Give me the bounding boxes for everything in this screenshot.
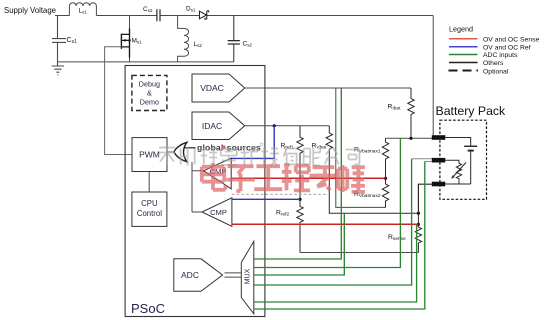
node batmax mid (384, 177, 387, 180)
resistor Ribat (408, 88, 414, 138)
wire cmp outputs to or-gate (192, 162, 204, 212)
svg-text:Optional: Optional (483, 68, 509, 75)
resistor Rref2 (297, 199, 303, 252)
legend blue (449, 46, 478, 48)
battery cell (445, 138, 477, 185)
node IDAC line (273, 124, 276, 127)
legend red (449, 38, 478, 40)
wire green adc 6 (254, 162, 425, 310)
legend black (449, 62, 478, 64)
block IDAC (192, 112, 245, 140)
node Ribat bottom (409, 137, 412, 140)
svg-text:Battery Pack: Battery Pack (436, 104, 507, 118)
resistor Rvbatmax2 (382, 178, 388, 207)
transistor Ms1 (121, 16, 129, 62)
wire green adc 5 (254, 225, 417, 302)
svg-text:ADC inputs: ADC inputs (483, 52, 518, 59)
wire blue ref to CMP1 (231, 126, 274, 159)
ground (52, 62, 64, 75)
block CPU Control (132, 192, 167, 226)
inductor Ls2 (178, 16, 189, 62)
battery pack box (440, 120, 487, 199)
wire battery mid line B (425, 161, 433, 163)
wire ground sense bottom (300, 252, 419, 254)
svg-text:Cs2: Cs2 (243, 41, 253, 48)
svg-text:PSoC: PSoC (131, 301, 165, 316)
wire VDAC output line (245, 87, 411, 89)
svg-text:Ms1: Ms1 (132, 38, 143, 45)
wire PWM to CPU (148, 172, 150, 193)
svg-text:Debug: Debug (139, 80, 160, 89)
inductor Ls1 (69, 3, 96, 16)
svg-text:Cs1: Cs1 (67, 37, 78, 45)
svg-text:Control: Control (137, 209, 162, 218)
wire ADC bus (225, 273, 242, 277)
wire green adc 3 (254, 213, 344, 275)
wire green adc 1 (254, 88, 341, 259)
svg-text:ADC: ADC (181, 270, 199, 280)
wire optional dashed (232, 193, 329, 195)
wire pwm to or-gate (167, 151, 174, 153)
svg-text:Ls2: Ls2 (194, 41, 203, 48)
resistor Rref1 (297, 126, 303, 200)
svg-text:PWM: PWM (139, 150, 160, 160)
wire right drop to battery (432, 16, 434, 136)
svg-text:Legend: Legend (449, 25, 473, 34)
svg-text:Demo: Demo (140, 98, 159, 107)
watermark gray hanzi row (159, 147, 359, 166)
svg-text:Cs2: Cs2 (143, 6, 153, 13)
node Rsense top (417, 212, 420, 215)
wire battery plus line (386, 137, 433, 139)
debug demo box (132, 75, 167, 110)
svg-text:VDAC: VDAC (200, 83, 224, 93)
block VDAC (192, 74, 245, 102)
svg-text:global: global (197, 142, 224, 152)
watermark red hanzi row (202, 163, 365, 192)
thermistor RT (445, 160, 466, 184)
wire red OV sense 2 (232, 223, 419, 225)
svg-text:OV and OC Sense: OV and OC Sense (483, 36, 540, 43)
wire top rail right (207, 15, 433, 17)
wire green adc 4 (254, 159, 412, 285)
or-gate U1 (174, 142, 187, 161)
wire green adc 2 (254, 138, 401, 267)
svg-text:&: & (147, 89, 152, 98)
svg-text:IDAC: IDAC (202, 121, 222, 131)
resistor Rvbatmax1 (382, 138, 388, 178)
wire top rail mid2 (160, 15, 199, 17)
comparator CMP2 (202, 198, 232, 227)
wire top rail mid1 (96, 15, 156, 17)
wire gate to PWM (105, 47, 132, 155)
PSoC box (125, 66, 265, 317)
capacitor Cs2 series (157, 9, 160, 21)
capacitor Cs1 (52, 16, 66, 62)
wire VDAC drop to Rvbatmax2 bottom (336, 88, 386, 207)
wire battery mid line A (412, 158, 433, 160)
terminal bar 3 (432, 182, 446, 187)
node Rref1 bottom (298, 198, 301, 201)
legend dashed (449, 70, 479, 72)
wire top rail left (55, 15, 69, 17)
resistor Rvbat (326, 126, 418, 213)
block PWM (132, 138, 167, 172)
terminal bar 1 (432, 135, 446, 140)
svg-text:OV and OC Ref: OV and OC Ref (483, 44, 531, 51)
mux M1 (241, 241, 254, 313)
comparator CMP1 (204, 158, 232, 189)
capacitor Cs2 output (228, 16, 240, 62)
terminal bar 2 (432, 158, 446, 163)
svg-text:CPU: CPU (141, 199, 158, 208)
diode Ds1 (199, 11, 208, 19)
legend green (449, 54, 478, 56)
svg-text:CMP: CMP (210, 208, 227, 217)
wire blue ref to CMP2 (232, 198, 300, 200)
svg-text:Supply Voltage: Supply Voltage (4, 6, 56, 15)
wire battery minus to Rsense (418, 184, 432, 213)
block ADC (174, 259, 223, 292)
wire ground rail (58, 61, 234, 63)
wire or-gate top input stub (185, 147, 196, 149)
svg-text:Ls1: Ls1 (79, 8, 88, 15)
wire IDAC output line (245, 125, 330, 127)
svg-text:MUX: MUX (245, 268, 252, 284)
resistor Rsense (415, 213, 421, 252)
svg-text:Ds1: Ds1 (186, 6, 196, 13)
wire red OV sense 1 (231, 177, 385, 179)
watermark global sources (197, 142, 263, 152)
svg-text:Others: Others (483, 60, 504, 67)
